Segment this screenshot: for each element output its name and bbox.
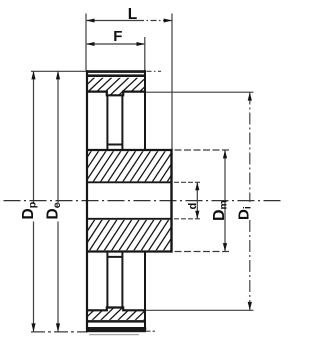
dimension F arrowheads [86, 42, 145, 46]
extension line d bottom [174, 218, 201, 220]
bore top edge [87, 181, 172, 183]
web face rectangle top [107, 96, 122, 150]
rim hatch band top [67, 77, 163, 95]
Di arrowheads [248, 92, 252, 310]
svg-text:F: F [113, 28, 122, 45]
rim inner edge top (stepped) [87, 92, 146, 96]
hub top edge [87, 149, 172, 151]
extension line left of L and F [85, 14, 87, 71]
pulley left face [86, 70, 88, 332]
web face rectangle bottom [107, 252, 122, 308]
rim right face bottom [144, 252, 146, 330]
extension line right of L (down to hub corner) [171, 14, 173, 151]
extension line Dm bottom [175, 251, 230, 253]
centerline horizontal axis [4, 200, 283, 202]
svg-text:L: L [128, 6, 137, 23]
dimension De line [57, 72, 59, 332]
dimension Di line [249, 93, 251, 311]
centerline stub top right [147, 70, 162, 72]
rim inner edge bottom (stepped) [87, 308, 146, 311]
De arrowheads [56, 71, 60, 332]
tooth root band top (bar2) [87, 74, 146, 77]
tooth tip band bottom (bar1') [86, 327, 146, 332]
scan shadow line under bottom bar [89, 334, 139, 336]
Dp arrowheads [31, 71, 35, 332]
hub right face [170, 149, 172, 253]
hub hatch lower band [67, 219, 199, 251]
dimension Dp line [33, 72, 35, 332]
hub hatch upper band [64, 151, 196, 182]
dimension Dm line [224, 150, 226, 251]
Dm arrowheads [223, 150, 227, 252]
rim right face top [144, 70, 146, 150]
hub bottom edge [87, 250, 172, 252]
rim hatch band bottom [75, 308, 166, 321]
centerline stub bottom right [147, 330, 156, 332]
extension line Dm top [175, 149, 230, 151]
extension line right of F [144, 37, 146, 71]
svg-text:d: d [187, 203, 199, 210]
extension line Di top [146, 91, 254, 93]
tooth root band bottom (bar2') [87, 320, 146, 323]
extension line bottom left (De/Dp) [31, 331, 87, 333]
tooth tip band top (bar1) [86, 70, 146, 73]
dimension L arrowheads [86, 19, 172, 23]
extension line top left (De/Dp) [31, 70, 87, 72]
extension line d top [174, 181, 201, 183]
dimension F line [87, 43, 145, 45]
dimension L line [87, 20, 172, 22]
bore bottom edge [87, 218, 172, 220]
extension line Di bottom [146, 309, 254, 311]
d arrowheads [195, 182, 199, 219]
dimension d line [196, 183, 198, 219]
